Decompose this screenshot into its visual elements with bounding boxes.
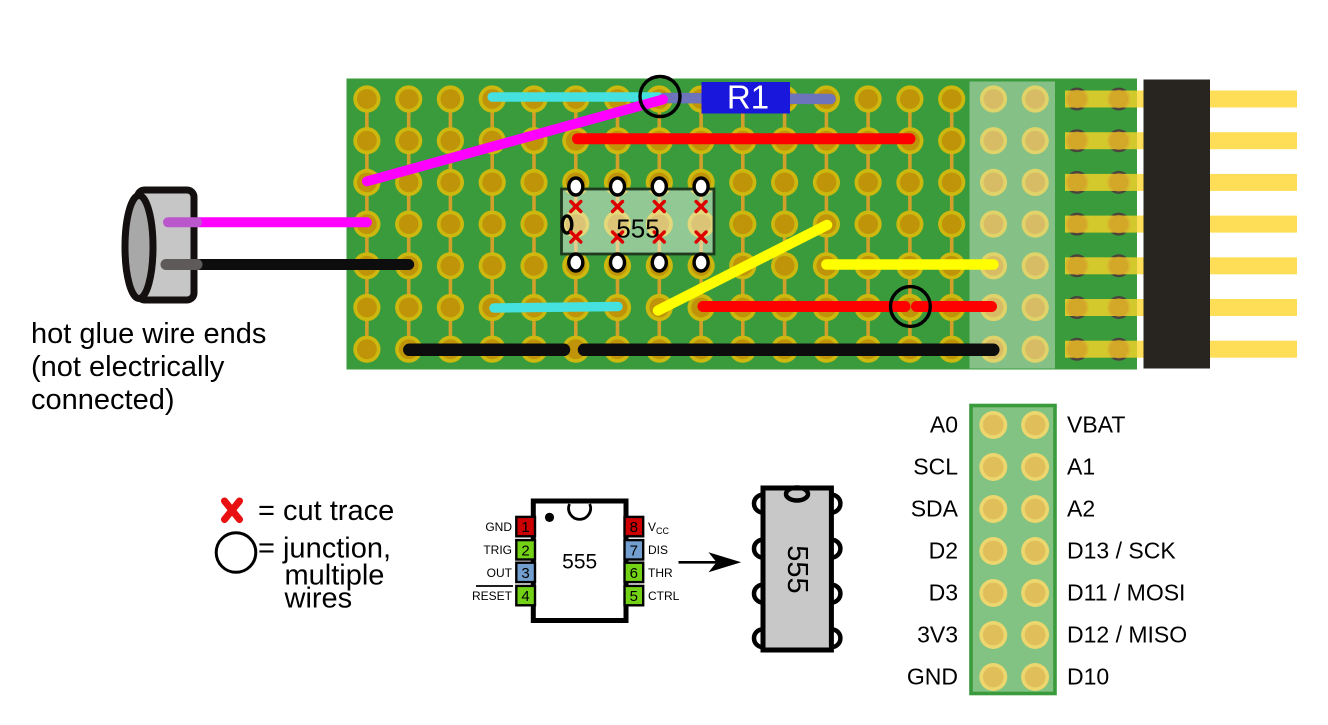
555 pin 3 (OUT)	[516, 563, 535, 582]
svg-text:SDA: SDA	[911, 496, 959, 522]
555 pin 6 (THR)	[625, 563, 644, 582]
555 pin 4 (RESET)	[516, 586, 535, 605]
wire red row6 segment B	[917, 301, 992, 312]
svg-text:THR: THR	[648, 566, 673, 580]
svg-text:A2: A2	[1067, 496, 1095, 522]
svg-text:3V3: 3V3	[917, 622, 958, 648]
svg-text:A0: A0	[930, 412, 958, 438]
wire yellow diagonal	[658, 225, 827, 311]
svg-text:7: 7	[630, 542, 638, 559]
svg-text:= cut trace: = cut trace	[258, 495, 394, 527]
wire red row6 segment A	[703, 301, 905, 312]
resistor R1 left/right leads	[664, 98, 831, 99]
svg-text:555: 555	[616, 214, 659, 244]
connector pin pad tops (through pins)	[1068, 90, 1128, 359]
arrow	[679, 561, 719, 564]
wire magenta mic lead	[170, 217, 367, 227]
connector housing	[1144, 80, 1211, 369]
wire cyan row6	[494, 307, 618, 309]
I/O header strip	[971, 406, 1055, 694]
legend junction symbol	[216, 533, 256, 573]
555 pinout pin-1 dot	[545, 513, 554, 522]
svg-text:GND: GND	[485, 520, 512, 534]
svg-text:D11 / MOSI: D11 / MOSI	[1067, 580, 1185, 606]
wire red row2	[578, 133, 911, 144]
DIP-8 package pins	[754, 495, 840, 648]
svg-text:5: 5	[630, 588, 638, 605]
svg-text:1: 1	[521, 519, 529, 536]
svg-text:8: 8	[630, 519, 638, 536]
wire magenta diagonal	[367, 100, 663, 182]
svg-text:wires: wires	[284, 583, 353, 615]
header pins (translucent)	[1065, 91, 1297, 358]
555 pin 7 (DIS)	[625, 540, 644, 559]
wire yellow row5	[826, 259, 993, 270]
legend cut-trace symbol	[225, 501, 240, 520]
svg-text:4: 4	[521, 588, 529, 605]
svg-text:DIS: DIS	[648, 543, 668, 557]
svg-text:555: 555	[781, 545, 813, 593]
cut trace marks under IC	[571, 202, 706, 243]
svg-text:hot glue wire ends: hot glue wire ends	[31, 318, 266, 350]
svg-text:CTRL: CTRL	[648, 589, 680, 603]
svg-text:(not electrically: (not electrically	[31, 351, 225, 383]
555 pin 2 (TRIG)	[516, 540, 535, 559]
wire cyan row1	[492, 92, 659, 102]
electret microphone face	[125, 196, 153, 299]
wire black row7 segment A	[409, 344, 564, 357]
DIP-8 notch	[786, 488, 808, 501]
svg-text:D2: D2	[929, 538, 958, 564]
IC U1 pin holes	[569, 178, 708, 271]
555 pinout notch	[569, 504, 591, 519]
555 pinout diagram body	[533, 501, 626, 621]
wire black mic lead	[170, 259, 409, 270]
wire black row7 segment B	[584, 344, 993, 357]
svg-text:connected): connected)	[31, 384, 175, 416]
junction J1 (multiple wires)	[640, 77, 680, 117]
svg-text:D10: D10	[1067, 664, 1109, 690]
svg-text:6: 6	[630, 565, 638, 582]
junction J2 (multiple wires)	[891, 287, 931, 327]
resistor R1 body	[702, 82, 791, 114]
555 pin 5 (CTRL)	[625, 586, 644, 605]
perfboard pads	[353, 85, 1048, 362]
svg-text:OUT: OUT	[487, 566, 513, 580]
svg-text:RESET: RESET	[472, 589, 513, 603]
svg-text:TRIG: TRIG	[483, 543, 512, 557]
svg-text:SCL: SCL	[913, 454, 958, 480]
555 pin 1 (GND)	[516, 517, 535, 536]
svg-text:3: 3	[521, 565, 529, 582]
perfboard	[347, 79, 1138, 370]
electret microphone body	[138, 190, 195, 300]
555 pin 8 (Vcc)	[625, 517, 644, 536]
svg-text:R1: R1	[727, 79, 769, 116]
mic lead stubs (muted, under hot glue)	[168, 217, 197, 227]
svg-text:2: 2	[521, 542, 529, 559]
DIP-8 package body	[763, 488, 831, 650]
svg-text:D3: D3	[929, 580, 958, 606]
connector pin pad rings	[1067, 89, 1129, 360]
svg-text:GND: GND	[907, 664, 958, 690]
svg-text:555: 555	[562, 551, 597, 574]
svg-text:D12 / MISO: D12 / MISO	[1067, 622, 1187, 648]
bus strip overlay	[970, 82, 1056, 369]
svg-text:D13 / SCK: D13 / SCK	[1067, 538, 1176, 564]
svg-text:VBAT: VBAT	[1067, 412, 1125, 438]
svg-text:A1: A1	[1067, 454, 1095, 480]
IC U1 555 overlay body	[562, 189, 715, 254]
perfboard vertical strip traces	[367, 99, 952, 349]
IC U1 notch marker	[562, 216, 572, 233]
I/O header pin holes	[979, 411, 1049, 691]
